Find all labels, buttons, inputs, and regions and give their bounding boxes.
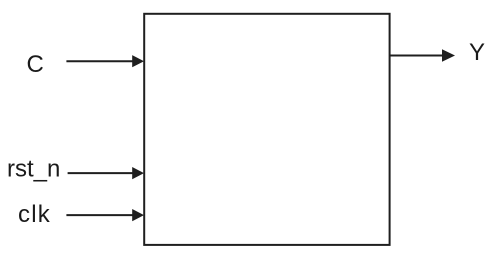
svg-text:clk: clk [18, 201, 51, 228]
arrowhead clk input [132, 209, 144, 221]
svg-text:C: C [27, 51, 44, 78]
arrowhead Y output [442, 49, 455, 61]
wire Y output [390, 55, 444, 57]
wire clk input [66, 214, 133, 216]
svg-text:Y: Y [469, 39, 485, 66]
module box [144, 14, 389, 245]
arrowhead rst_n input [132, 167, 144, 179]
wire rst_n input [68, 172, 134, 174]
wire C input [66, 60, 133, 62]
svg-text:rst_n: rst_n [7, 156, 60, 183]
arrowhead C input [132, 55, 144, 67]
